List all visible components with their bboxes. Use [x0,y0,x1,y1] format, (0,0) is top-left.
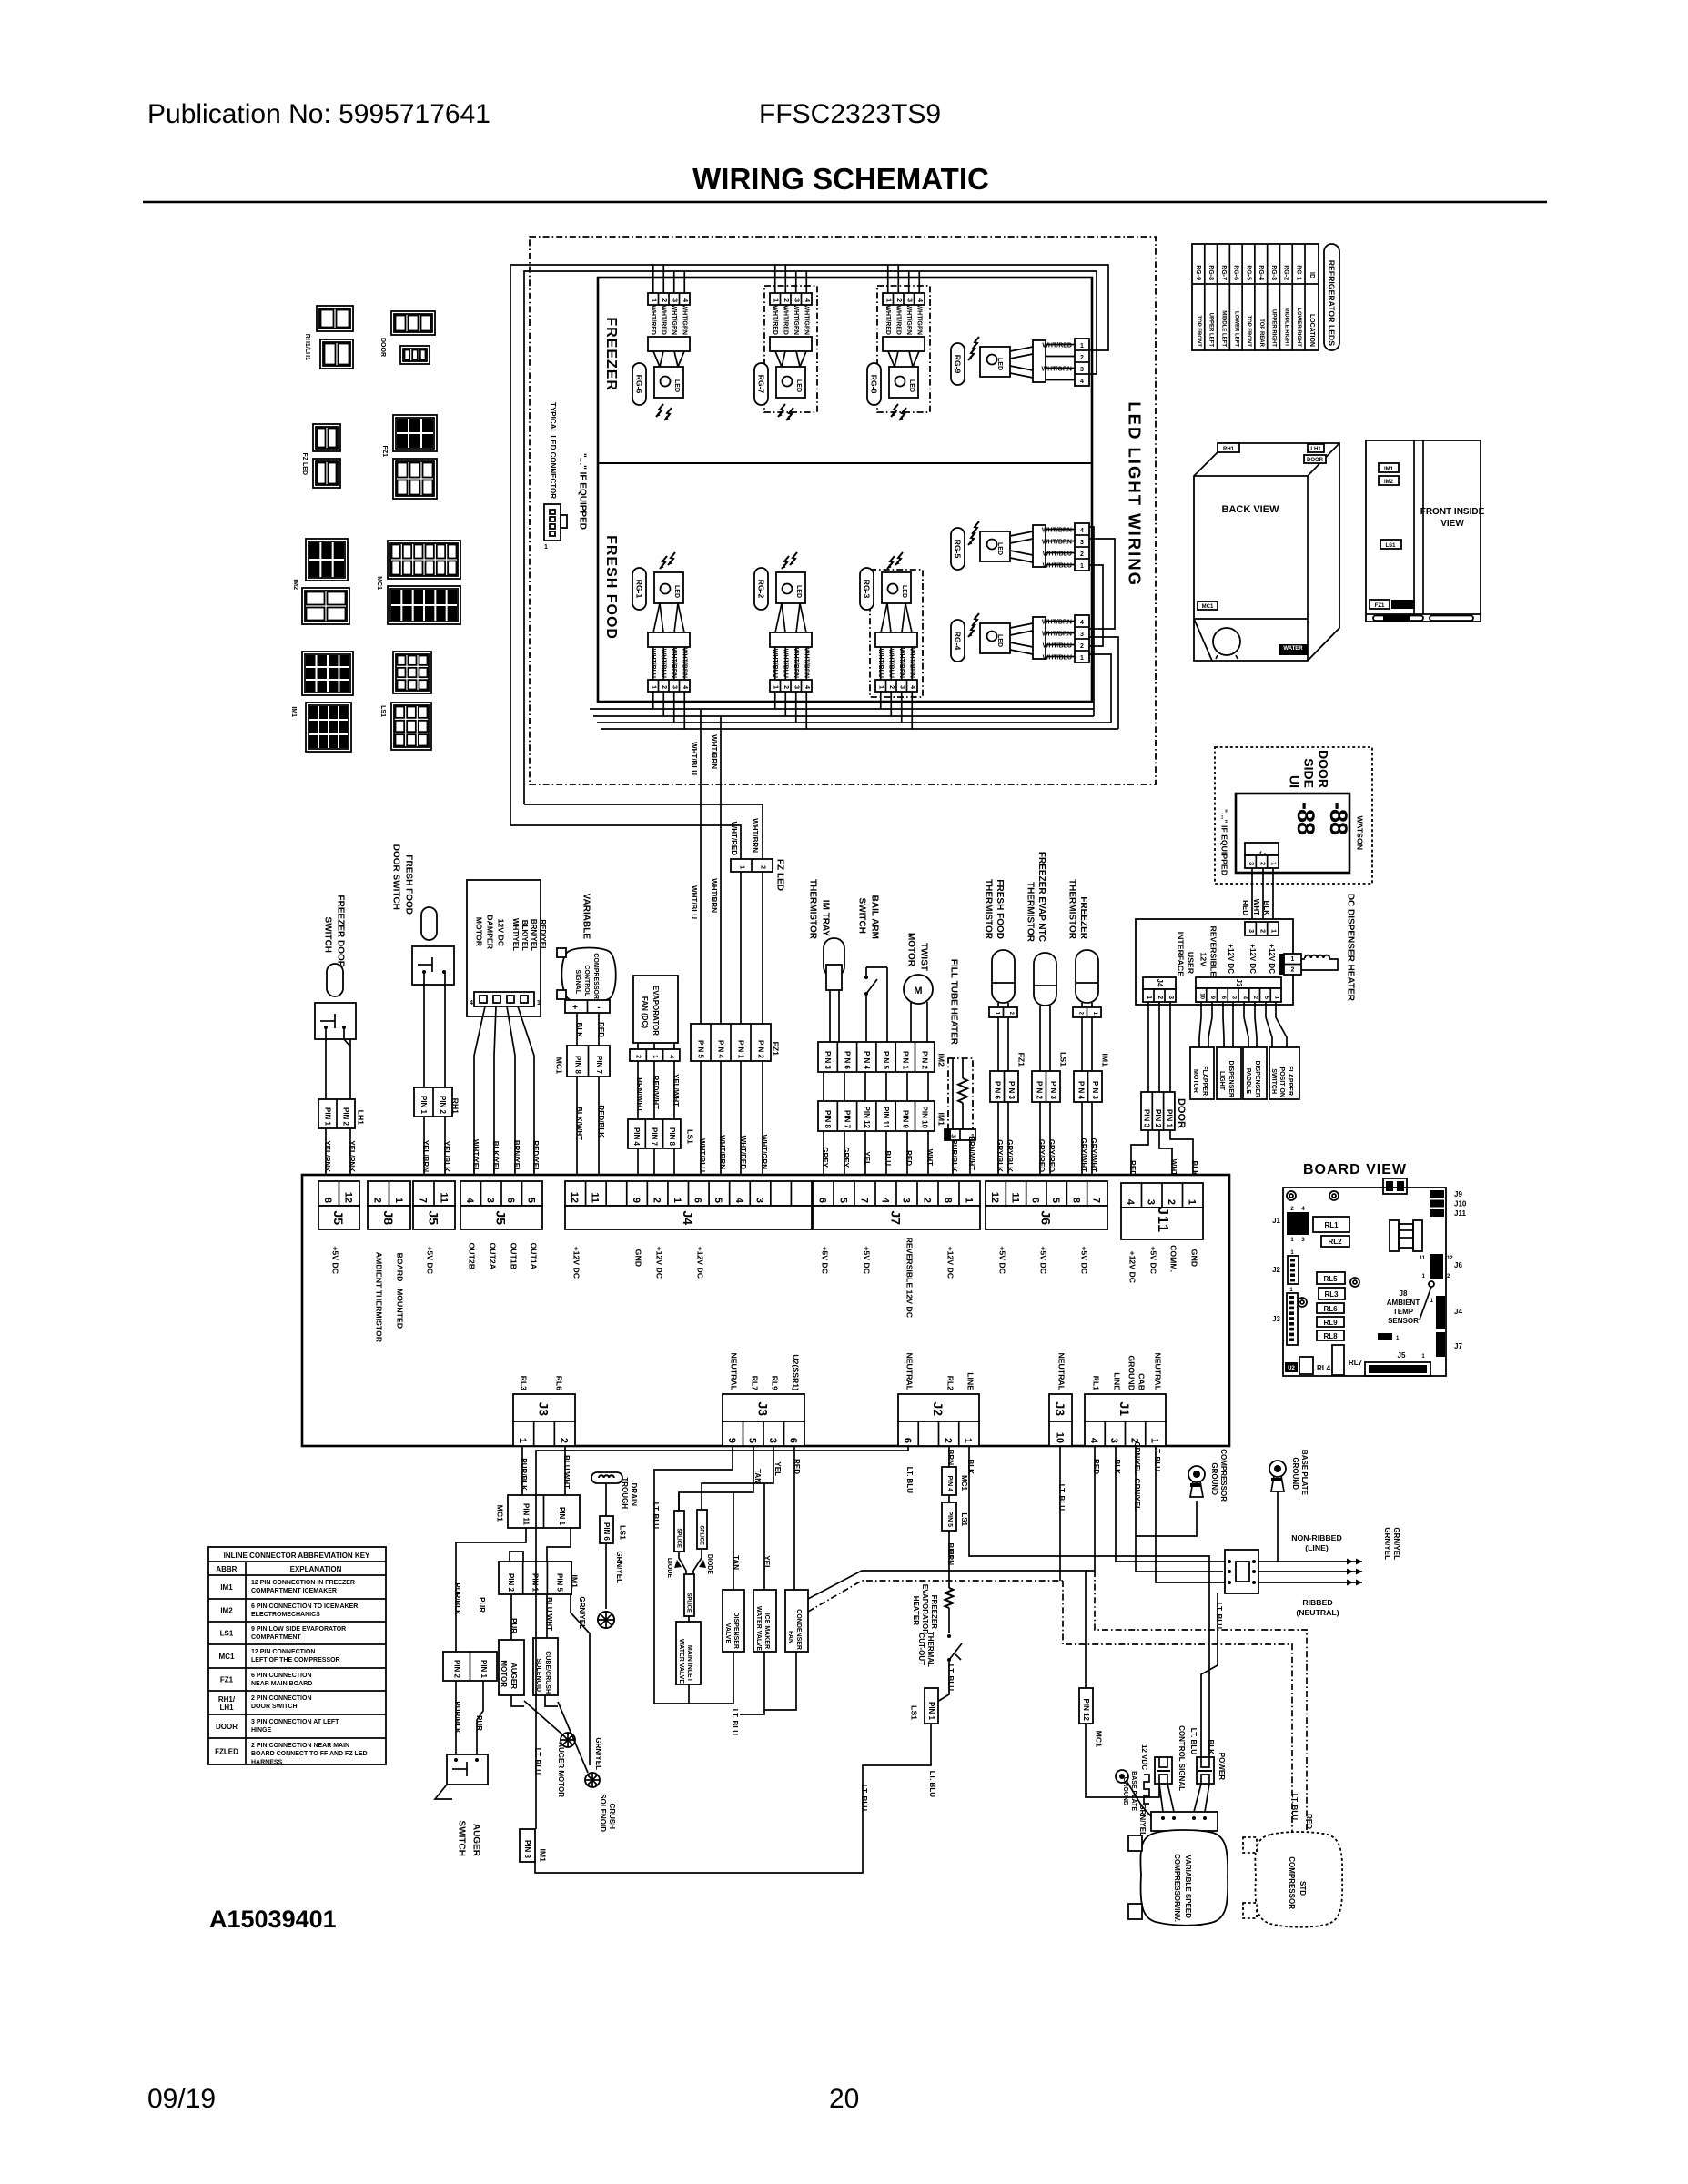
svg-text:PIN 1: PIN 1 [324,1107,332,1127]
svg-text:BLK: BLK [1113,1460,1121,1475]
right side risers to RG-4/RG-5 [1089,527,1094,716]
svg-text:1: 1 [963,1438,974,1443]
back view label WATER VALVE [1279,644,1308,655]
svg-text:7: 7 [1091,1198,1102,1203]
splice 2 [697,1510,707,1549]
svg-text:RH1/: RH1/ [218,1695,236,1704]
svg-text:2: 2 [1080,355,1084,361]
board relay RL4 [1299,1357,1313,1374]
svg-text:A15039401: A15039401 [209,1906,337,1933]
svg-text:OUT1B: OUT1B [510,1243,519,1269]
svg-text:7: 7 [858,1198,869,1203]
svg-text:LED: LED [908,379,915,392]
svg-text:3: 3 [767,1438,778,1443]
svg-text:REVERSIBLE 12V DC: REVERSIBLE 12V DC [905,1238,915,1319]
svg-text:2: 2 [635,1055,642,1058]
svg-text:RG-5: RG-5 [954,540,963,559]
svg-text:NEAR MAIN BOARD: NEAR MAIN BOARD [251,1681,312,1687]
compressor signal +/- box [565,1000,610,1013]
svg-text:+5V DC: +5V DC [1039,1246,1048,1274]
dispenser valve [678,1492,680,1511]
svg-text:DRAIN: DRAIN [630,1483,638,1507]
wires IM2 to IM1 [823,1072,824,1101]
wires MC1 to IM1 block [456,1528,526,1652]
svg-text:WHT/BLU: WHT/BLU [1043,643,1072,650]
svg-text:OUT2B: OUT2B [468,1243,477,1269]
svg-text:PIN 2: PIN 2 [452,1660,460,1679]
svg-text:LT. BLU: LT. BLU [652,1502,660,1529]
svg-text:DISPENSER: DISPENSER [1254,1061,1260,1097]
power cord lines [1258,1561,1362,1562]
variable compressor mounts [1128,1835,1142,1851]
svg-text:WATER VALVE: WATER VALVE [678,1639,684,1683]
power cord terminal block [1225,1550,1258,1593]
wires IM1 block down / labels [510,1594,512,1640]
svg-text:(NEUTRAL): (NEUTRAL) [1296,1608,1339,1617]
svg-text:FREEZER DOOR: FREEZER DOOR [336,895,346,968]
svg-text:J1: J1 [1117,1401,1132,1416]
svg-text:12: 12 [569,1192,580,1203]
svg-text:IM1: IM1 [937,1113,946,1127]
connector LS1 PIN 5 [948,1495,950,1502]
wire LT.BLU from J3-10 [1059,1446,1061,1581]
svg-text:WIRING SCHEMATIC: WIRING SCHEMATIC [692,162,989,196]
svg-text:2: 2 [559,1438,570,1443]
svg-text:2: 2 [783,298,789,302]
svg-text:RG-8: RG-8 [1208,265,1214,280]
typical LED connector symbol [544,504,561,541]
connector J3 pin 10 [1049,1394,1072,1421]
LED module RG-2 LED box [776,572,805,603]
fill tube heater outline [948,1058,973,1129]
compressor ground ring [1188,1466,1205,1482]
wire PIN12 to compressor control [1085,1571,1087,1688]
condenser fan [785,1590,808,1652]
svg-text:THERMAL: THERMAL [926,1632,935,1667]
svg-text:FFSC2323TS9: FFSC2323TS9 [759,99,941,129]
svg-text:GRN/YEL: GRN/YEL [1133,1478,1141,1511]
flapper motor box [1190,1047,1214,1099]
svg-text:Publication No: 5995717641: Publication No: 5995717641 [147,99,490,129]
svg-text:BRN/WHT: BRN/WHT [635,1077,643,1112]
LED light wiring inner box (freezer / fresh food) [598,278,1092,702]
svg-text:12: 12 [1447,1256,1453,1261]
svg-text:BLU: BLU [884,1151,892,1167]
svg-text:BLK: BLK [575,1023,583,1038]
wires FZ1 to J4 / labels [700,1061,702,1180]
connector LS1 picture [393,652,431,693]
svg-text:AUGER: AUGER [471,1824,481,1857]
FREEZER EVAP NTC THERMISTOR wires to J6 [1039,1102,1041,1180]
svg-text:EVAPORATOR: EVAPORATOR [652,986,660,1036]
svg-text:WHT/BLU: WHT/BLU [888,649,895,678]
board mounting holes [1287,1191,1296,1200]
svg-text:+12V DC: +12V DC [655,1247,664,1279]
svg-text:USER: USER [1187,952,1196,975]
svg-text:J6: J6 [1454,1261,1462,1269]
std compressor body [1255,1832,1342,1927]
svg-text:PUR: PUR [478,1597,486,1613]
svg-text:WHT: WHT [1169,1159,1178,1176]
svg-text:IM TRAY: IM TRAY [821,900,831,937]
FREEZER EVAP NTC THERMISTOR bulb [1034,953,1056,1006]
svg-text:STD: STD [1299,1881,1307,1896]
connector J5 (fresh food door) [413,1181,455,1206]
LED module RG-3 fan wires [881,603,887,632]
svg-text:1: 1 [1080,563,1084,570]
LED module RG-9 designator [951,343,965,385]
LED module RG-6 fan wires [653,351,660,367]
thermal cut-out [947,1634,951,1638]
svg-text:RG-9: RG-9 [954,355,963,374]
wire LT.BLU from J2-6 to IM1 pin8 and LS1 pin1 [536,1446,908,1829]
svg-text:WHT/YEL: WHT/YEL [511,918,520,951]
connector IM1 pin block (bottom) [499,1562,571,1594]
svg-text:RG-3: RG-3 [1270,265,1277,280]
svg-text:WHT/RED: WHT/RED [730,822,738,856]
svg-text:LED: LED [673,379,680,392]
svg-text:RG-1: RG-1 [1295,265,1301,280]
variable speed compressor body [1140,1830,1228,1926]
svg-text:COMPRESSOR: COMPRESSOR [1288,1856,1296,1909]
front view kick plate slots [1373,616,1423,622]
svg-text:DOOR: DOOR [1307,458,1324,463]
svg-text:3: 3 [793,298,800,302]
svg-text:BRN/WHT: BRN/WHT [967,1136,975,1170]
fresh food door switch plunger [421,907,437,940]
svg-text:LT. BLU: LT. BLU [946,1664,955,1691]
svg-text:3: 3 [753,1198,764,1203]
svg-text:1: 1 [393,1198,404,1203]
svg-text:THERMISTOR: THERMISTOR [1067,879,1077,940]
svg-text:+5V DC: +5V DC [426,1246,435,1274]
connector IM2 picture [306,539,348,581]
svg-text:OUT1A: OUT1A [530,1243,539,1270]
svg-text:2: 2 [759,865,765,869]
svg-text:+12V DC: +12V DC [1248,944,1257,974]
board top connector [1383,1178,1407,1194]
svg-text:PIN 7: PIN 7 [595,1056,603,1075]
svg-text:WHT/BRN: WHT/BRN [671,648,677,678]
auger motor ground [511,1695,524,1706]
svg-text:DC DISPENSER HEATER: DC DISPENSER HEATER [1346,894,1356,1002]
board connector J1 [1287,1212,1309,1235]
svg-text:IM1: IM1 [290,706,297,717]
svg-text:2: 2 [661,298,667,302]
back view label MC1 [1198,602,1218,610]
LED module RG-9 arrows [972,337,979,349]
board connector J7 [1436,1332,1445,1357]
svg-text:1: 1 [651,298,657,302]
svg-text:2: 2 [1258,929,1265,933]
svg-text:LT. BLU: LT. BLU [1057,1484,1066,1511]
LED module RG-3 arrows [887,556,895,569]
flapper position switch box [1269,1047,1299,1099]
svg-text:IM2: IM2 [937,1054,946,1067]
inline connector abbreviation key table [208,1547,386,1764]
svg-text:FZ1: FZ1 [772,1042,781,1057]
FREEZER THERMISTOR wires to J6 [1081,1102,1083,1180]
LED module RG-2 connector pins [770,680,812,692]
svg-text:J2: J2 [931,1401,945,1416]
crush solenoid ground [545,1695,558,1706]
base plate ground (inverter) [1116,1770,1128,1783]
board relay RL8 [1317,1330,1344,1340]
wires LH1 to J5 / labels YEL/PNK [325,1128,327,1180]
LED module RG-7 LED box [776,367,805,398]
svg-text:SIDE: SIDE [1302,758,1317,788]
fill tube heater resistor [958,1078,967,1103]
svg-text:WHT/BRN: WHT/BRN [710,734,718,769]
svg-text:BOARD VIEW: BOARD VIEW [1303,1162,1407,1178]
svg-text:LT. BLU: LT. BLU [1189,1728,1198,1754]
svg-text:WHT: WHT [925,1149,934,1166]
svg-text:J11: J11 [1454,1209,1466,1218]
svg-text:BRN: BRN [946,1450,955,1466]
svg-text:SENSOR: SENSOR [1388,1317,1419,1325]
svg-text:1: 1 [878,685,884,689]
svg-text:11: 11 [438,1192,449,1203]
svg-text:J1: J1 [1272,1217,1280,1225]
svg-text:FAN: FAN [787,1631,793,1643]
svg-text:GND: GND [1190,1249,1199,1267]
svg-text:1: 1 [773,298,779,302]
svg-text:GRN/YEL: GRN/YEL [594,1737,602,1770]
connector J5 (door switches) [318,1181,359,1206]
svg-text:(LINE): (LINE) [1305,1543,1329,1552]
freezer evaporator heater [945,1588,954,1608]
wires LS1 to J4 [637,1148,639,1180]
board relay RL9 [1317,1317,1344,1327]
svg-text:6: 6 [505,1198,516,1203]
svg-text:3: 3 [793,685,800,689]
svg-text:GRN/YEL: GRN/YEL [1383,1527,1391,1560]
svg-text:COMPRESSOR/INV.: COMPRESSOR/INV. [1173,1854,1181,1922]
svg-text:J6: J6 [1039,1210,1054,1225]
LED light wiring outer dash-dot box [530,237,1156,784]
svg-text:1: 1 [672,1198,682,1203]
back view machine compartment [1194,618,1308,620]
svg-text:WHT/BRN: WHT/BRN [909,648,915,678]
svg-text:2: 2 [661,685,667,689]
svg-text:RL7: RL7 [1349,1359,1363,1367]
svg-text:RL7: RL7 [751,1376,760,1391]
svg-text:BLK: BLK [966,1460,975,1475]
svg-text:SPLICE: SPLICE [699,1525,704,1545]
svg-text:BACK VIEW: BACK VIEW [1222,504,1280,515]
board relay RL2 [1321,1236,1349,1247]
svg-text:LS1: LS1 [1059,1052,1068,1067]
svg-text:1: 1 [738,865,744,869]
board connector J3 [1287,1293,1298,1345]
svg-text:FREEZER: FREEZER [1078,896,1088,939]
svg-text:FREEZER: FREEZER [930,1595,938,1630]
svg-text:J4: J4 [1156,979,1164,987]
svg-text:FZ1: FZ1 [1017,1053,1026,1067]
svg-text:BAIL ARM: BAIL ARM [870,895,880,939]
svg-text:LT. BLU: LT. BLU [1215,1603,1223,1629]
svg-text:RED: RED [1305,1814,1313,1829]
svg-text:TROUGH: TROUGH [621,1477,629,1509]
svg-text:NEUTRAL: NEUTRAL [1057,1352,1066,1390]
svg-text:CUBE/CRUSH: CUBE/CRUSH [544,1651,551,1694]
svg-text:THERMISTOR: THERMISTOR [808,879,818,940]
svg-text:12V DC: 12V DC [497,919,506,947]
svg-text:RL8: RL8 [1323,1332,1338,1340]
svg-text:PIN 4: PIN 4 [946,1475,953,1491]
LED module RG-6 connector pins [648,293,690,305]
board relay RL5 [1317,1272,1345,1284]
connector MC1 pin block (bottom) [508,1495,580,1528]
damper motor connector [474,992,534,1006]
svg-text:RG-9: RG-9 [1195,265,1201,280]
svg-text:2 PIN CONNECTION: 2 PIN CONNECTION [251,1695,312,1702]
ice maker water valve [763,1483,765,1590]
svg-text:MC1: MC1 [496,1505,505,1522]
svg-text:LS1: LS1 [220,1630,234,1638]
BACK VIEW cabinet [1194,443,1339,661]
svg-text:THERMISTOR: THERMISTOR [1026,882,1036,943]
svg-text:LT. BLU: LT. BLU [928,1771,936,1797]
wires DOOR to J11 / labels RED WHT BLK [1131,1130,1148,1183]
svg-text:WHT/RED: WHT/RED [739,1136,747,1170]
dash-dot optional wires to std compressor [1095,1571,1307,1835]
svg-text:4: 4 [1080,528,1084,534]
svg-text:UPPER RIGHT: UPPER RIGHT [1271,309,1277,347]
svg-text:6: 6 [902,1438,913,1443]
connector IM1 pin block [818,1101,935,1131]
svg-text:IM1: IM1 [1101,1054,1110,1067]
wires J3 to MC1 (compressor aux) [521,1446,523,1495]
svg-text:2: 2 [372,1198,383,1203]
svg-text:3: 3 [672,298,678,302]
svg-text:DIODE: DIODE [666,1558,672,1579]
user interface box [1136,919,1293,1005]
connector RH1/LH1 picture [317,306,353,331]
svg-text:MIDDLE LEFT: MIDDLE LEFT [1221,310,1227,347]
WATSON display box [1236,794,1349,873]
svg-text:EVAPORATOR: EVAPORATOR [921,1584,929,1634]
connector FZ1 picture [393,415,437,451]
svg-text:PIN 1: PIN 1 [737,1040,745,1059]
connector IM1 PIN 8 (bottom) [520,1829,535,1862]
svg-text:J11: J11 [1155,1207,1170,1233]
svg-text:BOARD - MOUNTED: BOARD - MOUNTED [396,1253,405,1330]
connector DOOR pin block [1141,1092,1175,1130]
wires J3 valves to splices [654,1446,733,1704]
svg-text:09/19: 09/19 [147,2084,216,2114]
fresh food door switch body [412,946,454,985]
DC dispenser heater connector [1284,954,1301,975]
board relay RL6 [1317,1303,1344,1313]
svg-text:LED: LED [901,585,907,598]
wires UI J3 to dispenser boxes [1199,1002,1201,1047]
svg-text:5: 5 [747,1438,758,1443]
svg-text:+5V DC: +5V DC [1080,1246,1089,1274]
svg-text:COMPARTMENT ICEMAKER: COMPARTMENT ICEMAKER [251,1588,337,1594]
svg-text:6: 6 [788,1438,799,1443]
main board outline box [302,1175,1229,1446]
svg-text:LS1: LS1 [960,1512,968,1526]
LED module RG-3 designator [860,568,874,610]
svg-text:RED: RED [905,1150,913,1166]
back view label RH1 [1218,443,1239,452]
svg-text:IM2: IM2 [1384,480,1394,485]
svg-text:FLAPPER: FLAPPER [1201,1066,1208,1096]
svg-text:YEL/PNK: YEL/PNK [323,1140,331,1172]
svg-text:PUR: PUR [510,1618,518,1633]
LED module RG-5 LED box [980,531,1010,561]
svg-text:DOOR SWITCH: DOOR SWITCH [391,844,401,910]
svg-text:WHT/BLU: WHT/BLU [698,1138,706,1172]
svg-text:LS1: LS1 [1385,543,1396,549]
svg-text:MC1: MC1 [960,1475,968,1491]
svg-text:WHT/BLU: WHT/BLU [650,649,656,678]
svg-text:VIEW: VIEW [1440,519,1464,529]
svg-text:U2: U2 [1288,1366,1295,1371]
svg-text:11: 11 [1420,1256,1426,1261]
svg-text:DOOR: DOOR [379,338,386,357]
wires IM1 to J7 / labels [823,1131,824,1180]
svg-text:+5V DC: +5V DC [998,1246,1007,1274]
svg-text:+5V DC: +5V DC [863,1246,872,1274]
svg-text:PIN 8: PIN 8 [573,1056,581,1075]
svg-text:J7: J7 [1454,1342,1462,1350]
svg-text:LOWER LEFT: LOWER LEFT [1233,311,1238,347]
wires fill tube heater to J7 / labels [952,1140,954,1180]
compressor power fuse [1197,1757,1214,1784]
svg-text:SPLICE: SPLICE [676,1528,682,1548]
svg-text:PIN 10: PIN 10 [921,1107,929,1129]
wires fresh food door switch to RH1 [423,972,425,1087]
svg-text:RED/WHT: RED/WHT [652,1076,660,1109]
svg-text:PIN 1: PIN 1 [419,1096,428,1115]
svg-text:WHT/GRN: WHT/GRN [804,305,810,335]
svg-text:6: 6 [1030,1198,1041,1203]
svg-text:GROUND: GROUND [1291,1457,1299,1490]
svg-text:WHT/RED: WHT/RED [661,305,667,335]
svg-text:RG-2: RG-2 [757,580,766,599]
svg-text:20: 20 [829,2084,859,2114]
svg-text:3: 3 [906,298,913,302]
svg-text:BRN/YEL: BRN/YEL [512,1140,521,1172]
svg-text:5: 5 [713,1198,723,1203]
svg-text:LT. BLU: LT. BLU [905,1467,914,1493]
svg-text:4: 4 [668,1055,674,1058]
svg-text:REFRIGERATOR LEDS: REFRIGERATOR LEDS [1328,260,1337,346]
svg-text:PIN 11: PIN 11 [521,1503,530,1526]
svg-text:FZLED: FZLED [215,1748,238,1756]
svg-text:NEUTRAL: NEUTRAL [1154,1352,1163,1390]
svg-text:PIN 8: PIN 8 [668,1127,676,1147]
svg-text:FZ LED: FZ LED [301,453,308,476]
svg-text:12 VDC: 12 VDC [1140,1744,1148,1770]
svg-text:8: 8 [942,1198,953,1203]
connector IM1 picture [302,652,353,695]
svg-text:MOTOR: MOTOR [500,1660,508,1687]
svg-text:LT. BLU: LT. BLU [1153,1445,1161,1471]
svg-text:RL4: RL4 [1317,1364,1331,1372]
svg-text:WHT/BLU: WHT/BLU [690,885,698,919]
LED module RG-7 designator [754,363,768,405]
svg-text:8: 8 [1070,1198,1081,1203]
svg-text:RL1: RL1 [1092,1376,1101,1391]
svg-text:RED: RED [597,1022,605,1037]
svg-text:WHT/RED: WHT/RED [895,305,902,335]
wires evap fan to LS1 / labels [637,1061,639,1119]
svg-text:PUR/BLK: PUR/BLK [520,1458,528,1491]
svg-text:6: 6 [816,1198,827,1203]
